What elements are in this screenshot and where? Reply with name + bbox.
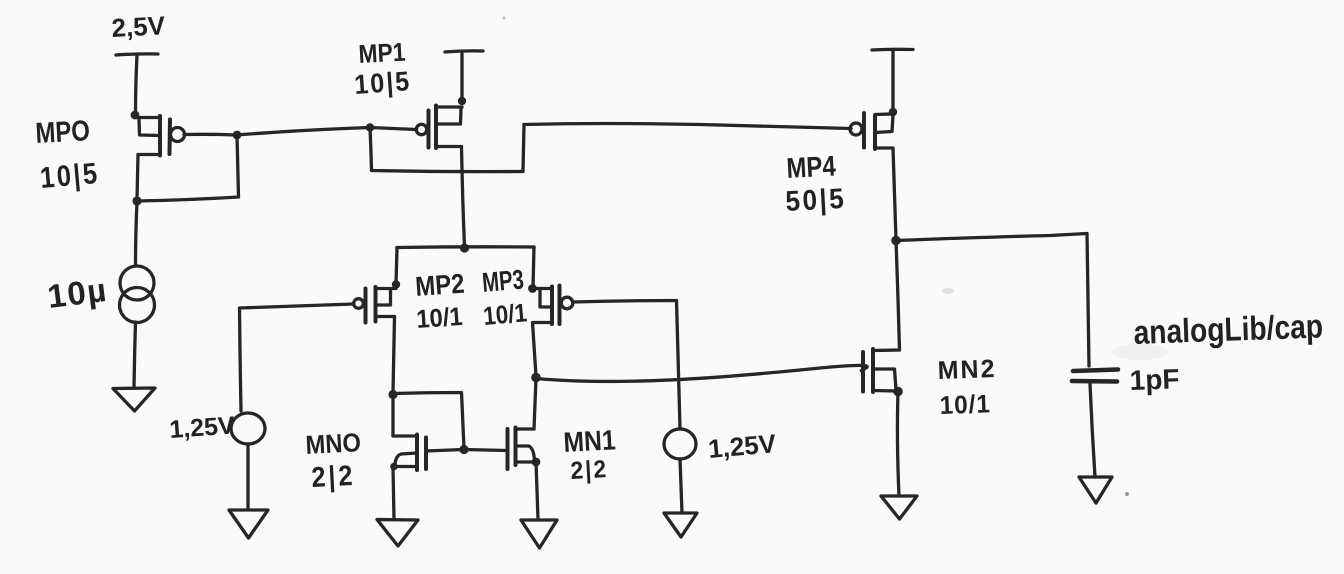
node MP1 gate tap (366, 123, 374, 131)
wire gate to MN1 (464, 450, 507, 451)
wire MN0 drain down (391, 395, 394, 436)
wire to capacitor (1087, 234, 1089, 367)
svg-text:1,25V: 1,25V (168, 411, 235, 444)
node diffpair tail (460, 243, 469, 252)
svg-text:MP4: MP4 (786, 149, 837, 184)
supply bar MP1 (445, 51, 483, 52)
transistor MN0 (393, 435, 463, 520)
svg-text:10/1: 10/1 (482, 299, 528, 331)
wire tail to MP2 source (396, 248, 397, 285)
node MN1 source (532, 458, 541, 467)
wire MP0 gate to MP1 gate (237, 128, 417, 136)
svg-text:10|5: 10|5 (353, 65, 412, 100)
node MN0 source (390, 463, 398, 471)
svg-text:1,25V: 1,25V (707, 428, 778, 464)
node MP1 source (458, 97, 466, 105)
ground under current source (113, 388, 155, 411)
wire tail to MP3 source (533, 247, 534, 288)
transistor MN1 (508, 378, 537, 469)
svg-text:10/1: 10/1 (939, 390, 991, 420)
svg-text:analogLib/cap: analogLib/cap (1133, 307, 1324, 352)
svg-text:MP1: MP1 (358, 38, 406, 69)
wire MP3 gate to 1.25V right (573, 301, 680, 429)
node MP4 drain (891, 236, 901, 246)
wire VDD to MP0 source (136, 55, 138, 114)
ground under MN0 (377, 520, 418, 547)
wire MN2 source to ground (897, 392, 899, 497)
svg-text:MPO: MPO (35, 114, 91, 150)
capacitor C1 plates (1073, 370, 1118, 372)
transistor MN2 (863, 349, 900, 392)
node MN2 source (893, 387, 903, 397)
wire MP2 gate to 1.25V (240, 304, 354, 411)
source V2 1.25V (664, 429, 696, 459)
node MP2 source (392, 280, 400, 288)
node MP3 source (528, 284, 537, 293)
node MP0 source (131, 111, 140, 120)
wire capacitor to ground (1090, 384, 1095, 477)
ground under MN1 (521, 520, 557, 548)
transistor MP0 (135, 116, 236, 200)
wire mirror gate bus to MP4 (524, 124, 851, 129)
svg-text:2|2: 2|2 (570, 455, 609, 485)
svg-text:1pF: 1pF (1129, 363, 1180, 396)
source V1 1.25V (231, 413, 265, 444)
svg-text:MN2: MN2 (937, 355, 997, 385)
svg-text:MN1: MN1 (563, 424, 617, 459)
supply bar MP4 (872, 48, 913, 52)
node MP0 drain (132, 196, 141, 205)
svg-text:10µ: 10µ (45, 271, 109, 315)
wire supply to MP4 source (891, 50, 894, 111)
transistor MP4 (850, 113, 896, 240)
svg-text:10/1: 10/1 (415, 303, 463, 334)
wire MP3 drain to MN2 gate (536, 365, 867, 381)
wire current source to ground (134, 322, 136, 388)
wire MN1 source to ground (536, 462, 538, 519)
svg-text:10|5: 10|5 (39, 156, 101, 194)
wire tail bar (397, 245, 534, 249)
wire MP1 drain down (462, 147, 465, 248)
current source I0 (120, 266, 155, 323)
svg-text:2,5V: 2,5V (111, 10, 167, 43)
ground under MN2 (881, 496, 917, 519)
transistor MP1 (416, 106, 462, 149)
wire V2 to ground (680, 459, 682, 513)
transistor MP2 (354, 287, 396, 393)
ground under V1 (229, 510, 268, 538)
scan speck (503, 17, 506, 20)
svg-text:50|5: 50|5 (785, 182, 847, 217)
supply 2.5V bar (116, 54, 158, 55)
node MP0 gate (233, 131, 242, 140)
scan speck (1125, 492, 1129, 496)
ground under capacitor (1079, 477, 1112, 503)
wire V1 to ground (246, 444, 249, 510)
svg-text:MNO: MNO (305, 428, 362, 460)
wire gate bypass under MP1 (370, 125, 524, 172)
node MN0 drain top (388, 390, 397, 399)
scan smudge (1112, 344, 1168, 360)
wire MP0 gate-drain diode tie (137, 135, 239, 201)
scan smudge (942, 288, 954, 294)
wire supply to MP1 source (460, 51, 463, 100)
wire MP0 drain to current source (136, 201, 138, 266)
node MP3 drain (531, 373, 541, 383)
ground under V2 (664, 513, 697, 537)
wire MP4 drain to MN2 drain (896, 241, 900, 351)
node MP4 source (889, 108, 897, 116)
node MN0/MN1 gate (459, 445, 468, 454)
wire MN0 drain-gate tie (393, 393, 464, 449)
svg-text:MP2: MP2 (414, 269, 465, 302)
svg-text:2|2: 2|2 (311, 459, 356, 493)
transistor MP3 (533, 286, 573, 377)
svg-text:MP3: MP3 (481, 265, 525, 299)
wire MP4 drain to cap (896, 234, 1087, 241)
